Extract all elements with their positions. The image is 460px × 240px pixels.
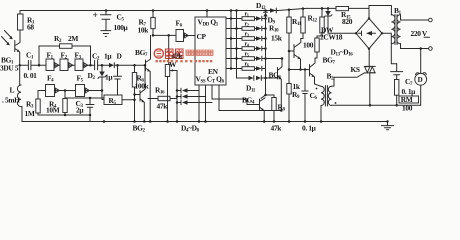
diode D9 on bus: [261, 9, 283, 98]
resistor R2 feedback bracket: [38, 34, 92, 66]
wire VDD pin: [206, 11, 208, 18]
resistor R3: [25, 91, 41, 119]
svg-text:47k: 47k: [172, 52, 184, 61]
ground: [382, 120, 394, 130]
capacitor C1: [24, 51, 38, 81]
motor D: [415, 47, 427, 105]
bottom rail: [22, 121, 388, 123]
wire R4 C3 top: [65, 97, 104, 99]
svg-text:47k: 47k: [271, 124, 283, 133]
resistor R7: [138, 9, 156, 35]
capacitor C5 with ground: [93, 9, 129, 36]
IC U1 box: [195, 17, 226, 85]
transistor BG7 left: [135, 35, 151, 121]
resistor R5 box: [104, 95, 136, 106]
svg-text:r4: r4: [245, 41, 249, 48]
svg-text:220 V: 220 V: [411, 29, 428, 38]
resistor R10 vertical: [287, 8, 294, 69]
resistor R9 1k: [287, 70, 301, 122]
terminals 220V: [401, 15, 433, 51]
inductor L: [2, 65, 22, 121]
transistor BG8: [288, 56, 336, 87]
svg-text:10k: 10k: [138, 26, 150, 35]
gate F1: [46, 51, 59, 71]
svg-text:0. 1μ: 0. 1μ: [302, 124, 317, 133]
resistor r1 row: [226, 11, 267, 21]
capacitor C6: [302, 68, 318, 132]
node D1 out: [116, 64, 119, 67]
svg-text:r1: r1: [245, 11, 249, 18]
svg-text:47k: 47k: [157, 102, 169, 111]
transformer B1: [391, 6, 401, 45]
svg-text:r2: r2: [245, 21, 249, 28]
resistor R12: [308, 7, 325, 38]
wire bridge top loop: [369, 6, 391, 19]
resistor r2 row: [226, 21, 267, 31]
svg-text:1μ: 1μ: [105, 73, 113, 82]
watermark big characters: [166, 49, 184, 59]
svg-text:2CW18: 2CW18: [320, 33, 343, 42]
wire F5 out: [85, 90, 103, 92]
gate F3: [75, 51, 88, 71]
wire top rail: [20, 8, 369, 10]
svg-text:100: 100: [402, 103, 413, 112]
svg-text:r6: r6: [245, 61, 249, 68]
svg-text:100: 100: [303, 41, 314, 50]
wire bottom inner: [38, 115, 90, 122]
capacitor C7: [391, 64, 416, 96]
capacitor C2: [92, 52, 112, 70]
resistor R4: [46, 98, 67, 115]
svg-text:. 5mH: . 5mH: [2, 96, 20, 105]
wire bridge right to snubber: [382, 33, 397, 63]
wire BG2 base: [135, 94, 141, 96]
gate F5: [76, 74, 90, 97]
transistor BG5: [294, 39, 302, 71]
wire oscillator node: [153, 34, 176, 36]
zener D2: [88, 64, 107, 100]
RM box: [399, 95, 419, 112]
gate F6: [176, 19, 196, 42]
svg-text:D: D: [418, 76, 423, 84]
svg-text:VDD Q1: VDD Q1: [198, 18, 219, 28]
svg-text:820: 820: [342, 17, 353, 26]
svg-text:0. 01: 0. 01: [24, 71, 38, 80]
svg-text:KS: KS: [351, 65, 360, 74]
zener DW 2CW18: [320, 7, 356, 41]
triac KS: [332, 49, 376, 106]
diode D11: [237, 76, 278, 94]
svg-text:10M: 10M: [46, 106, 60, 115]
diodes D4-D8 chain: [176, 71, 212, 134]
transistor BG2: [133, 64, 147, 134]
svg-text:15k: 15k: [271, 34, 283, 43]
resistor R13 100: [303, 38, 319, 58]
wire F4-F5: [55, 90, 76, 92]
resistor R6: [132, 64, 149, 122]
capacitor C3: [76, 98, 95, 115]
resistor R15 820 on rail: [336, 7, 353, 27]
resistor R11: [292, 7, 305, 38]
node emitter junction: [18, 64, 21, 67]
wire left output buses: [231, 11, 237, 79]
svg-text:D: D: [117, 52, 122, 61]
gate F2: [60, 51, 73, 71]
resistor r3 row: [226, 31, 267, 41]
svg-text:VSS CT Q6: VSS CT Q6: [196, 75, 225, 85]
resistor R16: [148, 86, 177, 111]
svg-text:2M: 2M: [68, 34, 78, 43]
light arrows: [2, 31, 13, 45]
gate F4: [46, 74, 60, 97]
svg-text:r3: r3: [245, 31, 249, 38]
watermark tiny row: [156, 60, 213, 62]
transistor BG6: [269, 57, 284, 112]
svg-text:1μ: 1μ: [104, 52, 112, 61]
resistor r6 row: [226, 61, 266, 71]
svg-text:100μ: 100μ: [114, 23, 129, 32]
transformer B2: [316, 72, 421, 122]
svg-text:+: +: [93, 11, 98, 21]
watermark small characters: [186, 50, 213, 55]
svg-text:L: L: [10, 86, 15, 95]
resistor R8: [264, 94, 285, 133]
resistor r5 row: [226, 51, 282, 61]
watermark logo: [154, 49, 163, 58]
svg-text:2μ: 2μ: [76, 106, 84, 115]
diode D1: [109, 52, 122, 68]
transistor BG4: [242, 96, 265, 122]
potentiometer W 47k: [165, 35, 177, 121]
rail junction dots: [103, 120, 106, 123]
resistor r4 row: [226, 41, 267, 51]
svg-text:3DU 5: 3DU 5: [0, 64, 19, 73]
wire signal row: [20, 64, 146, 66]
wire F4 input: [38, 90, 46, 92]
svg-text:CP: CP: [197, 32, 207, 41]
svg-text:68: 68: [27, 23, 34, 32]
resistor R1: [18, 11, 36, 40]
diode D12 on rail: [256, 1, 276, 13]
phototransistor BG1: [0, 40, 20, 73]
svg-text:r5: r5: [245, 51, 249, 58]
capacitor C4 1u: [105, 65, 122, 95]
svg-text:100k: 100k: [135, 82, 150, 91]
resistor snubber box: [395, 80, 399, 96]
svg-text:1M: 1M: [25, 109, 35, 118]
bridge rectifier D13-D16: [331, 17, 384, 58]
wire IC bottom pins: [199, 85, 281, 122]
